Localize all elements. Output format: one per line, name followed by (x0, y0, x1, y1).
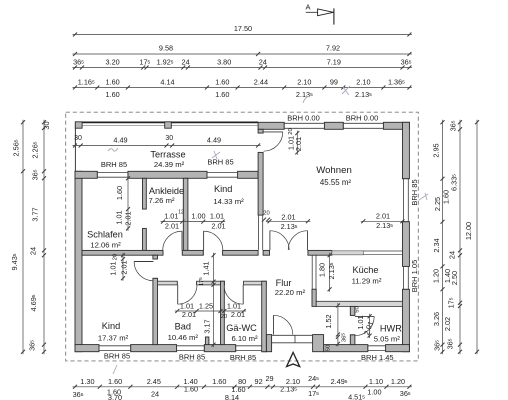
svg-text:A: A (305, 3, 310, 12)
svg-text:20: 20 (288, 128, 294, 134)
svg-text:Gä-WC: Gä-WC (226, 323, 257, 333)
svg-text:BRH 85: BRH 85 (104, 352, 130, 361)
svg-text:9.58: 9.58 (159, 44, 173, 53)
svg-text:1.60: 1.60 (105, 78, 119, 87)
svg-text:Kind: Kind (102, 321, 120, 331)
svg-text:Küche: Küche (352, 265, 378, 275)
dim right total 12.00 (464, 120, 479, 354)
room label 45.55 m² at 335.5,185 (320, 178, 352, 187)
south outer wall segment A (75, 345, 99, 352)
dim terrace posts 30-4.49 (73, 135, 261, 148)
entrance door swing arc (274, 315, 293, 334)
window Kind south (1.60 BRH 85) (99, 345, 131, 352)
room label 10.46 m² at 182.8,340 (168, 333, 199, 342)
dim Schlafen door vertical (115, 176, 133, 231)
double door Wohnen jambs (270, 250, 308, 255)
kitchen north opening glazing (363, 251, 402, 254)
wall Wohnen south west segment (263, 250, 269, 255)
svg-text:3.26: 3.26 (432, 312, 441, 326)
wall south-of-Schlafen segment (82, 250, 163, 255)
south outer wall segment F (386, 345, 410, 352)
house north wall segment A (75, 171, 97, 178)
svg-text:1.60: 1.60 (108, 377, 122, 386)
svg-text:1.60: 1.60 (215, 90, 229, 99)
room label 7.26 m² at 161.5,203 (148, 196, 175, 205)
label BRH 1.45 south (361, 353, 394, 362)
room label 14.33 m² at 228.5,204 (213, 197, 244, 206)
svg-text:1.20: 1.20 (391, 377, 405, 386)
svg-text:7.92: 7.92 (326, 44, 340, 53)
label BRH 85 terrace east (207, 158, 233, 167)
room label Küche at 365.5,273 (352, 265, 378, 275)
dim 9.58 / 7.92 (73, 44, 412, 57)
svg-text:1.41: 1.41 (202, 261, 211, 275)
svg-text:11.29 m²: 11.29 m² (352, 277, 382, 286)
window Kueche east (BRH 1.05) (403, 266, 410, 289)
svg-text:1.20: 1.20 (432, 269, 441, 283)
svg-text:2.01: 2.01 (281, 213, 295, 222)
svg-text:2.10: 2.10 (356, 78, 370, 87)
south outer wall segment B (131, 345, 177, 352)
svg-text:92: 92 (255, 377, 263, 386)
svg-text:1.10: 1.10 (369, 377, 383, 386)
door Kind swing arc (204, 231, 223, 250)
svg-text:30: 30 (165, 135, 173, 142)
svg-text:Wohnen: Wohnen (316, 165, 352, 176)
door HWR leaf (355, 315, 374, 317)
dim left outer 2.56-9.43 (10, 120, 25, 354)
svg-text:24: 24 (448, 251, 457, 259)
svg-text:50: 50 (326, 345, 332, 351)
svg-text:2.44: 2.44 (254, 78, 268, 87)
svg-text:2.02: 2.02 (443, 317, 452, 331)
wall Schlafen/Ankleide lower (143, 228, 147, 250)
house north wall segment B (128, 171, 207, 178)
wall HWR west stub (350, 306, 355, 315)
door Ankleide jambs (163, 250, 182, 255)
dim Bad GaeWC doors (175, 302, 246, 320)
svg-text:BRH 85: BRH 85 (410, 179, 419, 205)
svg-text:1.60: 1.60 (212, 377, 226, 386)
svg-text:BRH 1.05: BRH 1.05 (410, 260, 419, 293)
wall GaeWC east (262, 281, 267, 352)
svg-text:1.00: 1.00 (191, 212, 205, 221)
room label Flur at 283.5,286 (276, 278, 292, 288)
svg-text:2.45: 2.45 (147, 377, 161, 386)
house north wall segment C (238, 171, 259, 178)
double door right swing arc (288, 231, 307, 250)
dim double door 2.01 (267, 213, 310, 231)
window Bad south (BRH 85) (177, 345, 205, 352)
dim total 17.50 (73, 24, 412, 37)
svg-text:12.00: 12.00 (464, 222, 473, 240)
window Gae-WC south (BRH 85) (236, 345, 262, 352)
svg-text:20: 20 (113, 254, 119, 260)
svg-text:10.46 m²: 10.46 m² (168, 333, 199, 342)
svg-text:1.00: 1.00 (367, 388, 381, 397)
north outer wall east segment (383, 122, 409, 129)
room label Bad at 182.8,329.5 (175, 322, 191, 332)
svg-text:1.60: 1.60 (215, 78, 229, 87)
wall Kueche west glazed opening (1.80) (312, 255, 316, 289)
room label 24.39 m² at 169,167 (154, 160, 185, 169)
south outer wall segment C (204, 345, 235, 352)
label BRH 85 east rotated (410, 179, 419, 205)
roof overhang dashed outline (66, 112, 419, 361)
svg-text:2.01: 2.01 (294, 137, 303, 151)
svg-text:1.60: 1.60 (115, 186, 124, 200)
dim chain bottom row1 (73, 374, 412, 389)
north outer wall west segment (Wohnen) (258, 122, 284, 129)
svg-text:1.01: 1.01 (109, 261, 118, 275)
door Wohnen-terrace jambs (258, 133, 263, 152)
svg-text:24: 24 (151, 390, 159, 399)
svg-text:3.20: 3.20 (105, 58, 119, 67)
door Kind jambs (203, 250, 222, 255)
svg-text:2.50: 2.50 (450, 271, 459, 285)
svg-text:2.01: 2.01 (120, 260, 129, 274)
room label 17.37 m² at 113,340.5 (98, 334, 129, 343)
svg-text:Bad: Bad (175, 322, 191, 332)
door GaeWC leaf (242, 285, 244, 304)
dim Kind-bottom door (109, 253, 129, 281)
label BRH 0.00 west (287, 113, 320, 122)
entrance door sidelight glazing (272, 335, 313, 344)
wall between Ankleide/Kind doors segment (182, 250, 203, 255)
svg-text:BRH 1.45: BRH 1.45 (361, 353, 394, 362)
dim Wohnen west wall 20 (262, 211, 270, 222)
wall Bad/Flur segment A (158, 281, 178, 285)
dim Wohnen terrace door (287, 128, 304, 155)
svg-text:3.80: 3.80 (217, 58, 231, 67)
room label 6.10 m² at 244.5,341 (231, 334, 258, 343)
wall Bad/Flur segment B (197, 281, 225, 285)
wall Schlafen/Ankleide upper (143, 178, 147, 209)
window Kind north (1.60 BRH 85) (207, 171, 238, 178)
double door left swing arc (270, 231, 289, 250)
svg-text:5.05 m²: 5.05 m² (374, 335, 401, 344)
room label HWR at 390.9,331.5 (380, 324, 402, 334)
svg-text:1.30: 1.30 (80, 377, 94, 386)
east outer wall mid segment (403, 222, 410, 267)
svg-text:29: 29 (265, 374, 273, 383)
room label 12.06 m² at 105.5,247.5 (90, 241, 121, 250)
svg-text:BRH 85: BRH 85 (207, 158, 233, 167)
door HWR jambs (350, 315, 355, 334)
svg-text:7.19: 7.19 (327, 58, 341, 67)
bath partition stub (205, 337, 209, 345)
east outer wall bottom segment (403, 289, 410, 351)
svg-text:BRH 85: BRH 85 (101, 160, 127, 169)
svg-text:Schlafen: Schlafen (87, 230, 123, 240)
svg-text:45.55 m²: 45.55 m² (320, 178, 352, 187)
dim chain row4 windows (73, 78, 412, 100)
label BRH 85 south c (230, 353, 256, 362)
svg-text:24: 24 (29, 247, 38, 255)
svg-text:4.49: 4.49 (207, 135, 221, 144)
double door leaf left (269, 231, 271, 250)
door Kind leaf (203, 231, 205, 250)
wall Wohnen south mid segment (308, 250, 332, 255)
svg-text:30: 30 (74, 135, 82, 142)
svg-text:4.49: 4.49 (113, 135, 127, 144)
entrance door leaf (273, 315, 275, 334)
door Wohnen-terrace leaf (264, 131, 283, 133)
terrace top edge double line (75, 122, 258, 125)
dim Bad depth 3.17 (203, 282, 216, 347)
svg-text:17.50: 17.50 (234, 24, 252, 33)
door Kind-bottom leaf (134, 261, 153, 263)
svg-text:20: 20 (263, 211, 269, 217)
svg-text:Flur: Flur (276, 278, 292, 288)
svg-text:24: 24 (259, 58, 267, 67)
svg-text:BRH 85: BRH 85 (179, 352, 205, 361)
svg-text:Terrasse: Terrasse (150, 150, 185, 160)
terrace west edge line (74, 123, 76, 171)
svg-text:1.60: 1.60 (184, 385, 198, 394)
svg-text:3.17: 3.17 (203, 319, 212, 333)
svg-text:BRH 0.00: BRH 0.00 (287, 113, 320, 122)
dim Wohnen east opening 2.01 (361, 212, 405, 231)
room label Ankleide at 166.5,194 (149, 186, 184, 196)
svg-text:1.01: 1.01 (115, 210, 124, 224)
window Wohnen east (BRH 85) (403, 179, 410, 222)
section marker A bottom (287, 352, 300, 366)
dim chain row3 walls+rooms (73, 58, 412, 70)
svg-text:BRH 0.00: BRH 0.00 (346, 113, 379, 122)
window HWR south (1.10 BRH 1.45) (368, 345, 386, 352)
svg-text:2.10: 2.10 (297, 78, 311, 87)
svg-text:BRH 85: BRH 85 (230, 353, 256, 362)
entrance pier west (266, 335, 271, 352)
svg-text:99: 99 (330, 78, 338, 87)
wall Flur/Kind upper stub (153, 255, 158, 259)
door Schlafen open passage (0, 0, 1, 1)
dim chain bottom row2 (73, 385, 411, 400)
window Schlafen north (1.60 BRH 85) (97, 171, 128, 178)
svg-text:24.39 m²: 24.39 m² (154, 160, 185, 169)
room label Terrasse at 168,157.5 (150, 150, 185, 160)
wall Wohnen west main (258, 152, 263, 215)
door Kind-bottom jambs (153, 259, 158, 278)
label BRH 1.05 east rotated (410, 260, 419, 293)
svg-text:Kind: Kind (214, 184, 232, 194)
svg-text:8.14: 8.14 (225, 393, 239, 400)
svg-text:1.25: 1.25 (199, 302, 213, 311)
room label Kind at 111,329 (102, 321, 120, 331)
dim Flur width 1.41 (198, 253, 216, 286)
door Bad swing arc (178, 285, 197, 304)
room label Kind at 223.2,192 (214, 184, 232, 194)
svg-text:2.01: 2.01 (165, 222, 179, 231)
label BRH 85 south a (104, 352, 130, 361)
svg-text:1.80: 1.80 (318, 263, 327, 277)
label BRH 85 south b (179, 352, 205, 361)
wall Flur/Kind lower (153, 278, 158, 344)
terrace post 2 (165, 122, 172, 128)
south outer wall segment E (right of entrance) (324, 345, 368, 352)
wall Wohnen west stub top (258, 129, 263, 133)
door Kind-bottom swing arc (134, 262, 153, 281)
dim niche 1.52 (324, 303, 347, 351)
svg-text:7.26 m²: 7.26 m² (148, 196, 175, 205)
svg-text:12.06 m²: 12.06 m² (90, 241, 121, 250)
svg-text:50: 50 (355, 306, 361, 312)
door Schlafen jambs (143, 209, 147, 228)
door Bad jambs (177, 281, 196, 285)
svg-text:1.52: 1.52 (324, 314, 333, 328)
kitchen counter half-wall (332, 251, 363, 255)
svg-text:HWR: HWR (380, 324, 402, 334)
svg-text:2.34: 2.34 (432, 238, 441, 252)
wall HWR west lower stub (350, 335, 355, 345)
wall Wohnen west glazed lower part (259, 215, 263, 250)
east outer wall top segment (403, 122, 410, 178)
window Wohnen north 2 (2.10) (343, 122, 383, 129)
room label 22.20 m² at 289.9,295 (275, 288, 306, 297)
room label Wohnen at 334,173 (316, 165, 352, 176)
west outer wall (75, 171, 82, 351)
dim Kueche opening 1.80 (318, 253, 337, 292)
north outer wall mid segment (324, 122, 343, 129)
door GaeWC jambs (224, 281, 243, 285)
svg-text:12: 12 (178, 210, 184, 216)
door Ankleide swing arc (163, 231, 182, 250)
svg-text:2.01: 2.01 (211, 222, 225, 231)
label BRH 0.00 east (346, 113, 379, 122)
terrace post 1 (75, 122, 82, 128)
wall Kueche west solid (312, 289, 316, 306)
door Wohnen-terrace swing arc (264, 132, 283, 151)
svg-text:6.10 m²: 6.10 m² (231, 334, 258, 343)
svg-text:3.77: 3.77 (31, 207, 40, 221)
svg-text:22.20 m²: 22.20 m² (275, 288, 306, 297)
svg-text:1.01: 1.01 (210, 212, 224, 221)
door Ankleide leaf (181, 231, 183, 250)
svg-text:24: 24 (182, 58, 190, 67)
svg-text:1.01: 1.01 (164, 212, 178, 221)
svg-text:Ankleide: Ankleide (149, 186, 184, 196)
dim right room chain (442, 120, 463, 354)
south outer wall segment D (262, 345, 266, 352)
svg-text:1.60: 1.60 (442, 190, 451, 204)
svg-text:17.37 m²: 17.37 m² (98, 334, 129, 343)
svg-text:3.70: 3.70 (108, 393, 122, 400)
svg-text:2.95: 2.95 (432, 143, 441, 157)
dim left inner chain (28, 120, 52, 354)
door HWR swing arc (355, 316, 374, 335)
svg-text:4.14: 4.14 (160, 78, 174, 87)
section marker A top (305, 3, 333, 25)
door Bad leaf (177, 285, 179, 304)
wall Ankleide/Kind (183, 178, 188, 250)
entrance pier east (313, 335, 324, 352)
room label Schlafen at 105,237.5 (87, 230, 123, 240)
room label 5.05 m² at 386.8,341.5 (374, 335, 401, 344)
dim right window chain (432, 120, 445, 354)
dim HWR door (355, 306, 376, 338)
window Wohnen north 1 (2.10) (284, 122, 324, 129)
room label Gä-WC at 241.5,331 (226, 323, 257, 333)
pencil check marks (108, 86, 428, 374)
wall Bad/GaeWC (221, 281, 225, 344)
door GaeWC swing arc (224, 285, 243, 304)
double door leaf right (307, 231, 309, 250)
svg-text:2.01: 2.01 (376, 212, 390, 221)
wall Kind-south segment (223, 250, 259, 255)
svg-text:1.60: 1.60 (105, 90, 119, 99)
room label 11.29 m² at 366.5,283.5 (352, 277, 382, 286)
wall Kueche south thin wall (316, 301, 402, 306)
svg-text:20: 20 (221, 314, 227, 320)
dim Ankleide Kind doors (161, 210, 226, 231)
svg-text:14.33 m²: 14.33 m² (213, 197, 244, 206)
wall GaeWC/Flur segment C (244, 281, 267, 285)
label BRH 85 terrace west (101, 160, 127, 169)
